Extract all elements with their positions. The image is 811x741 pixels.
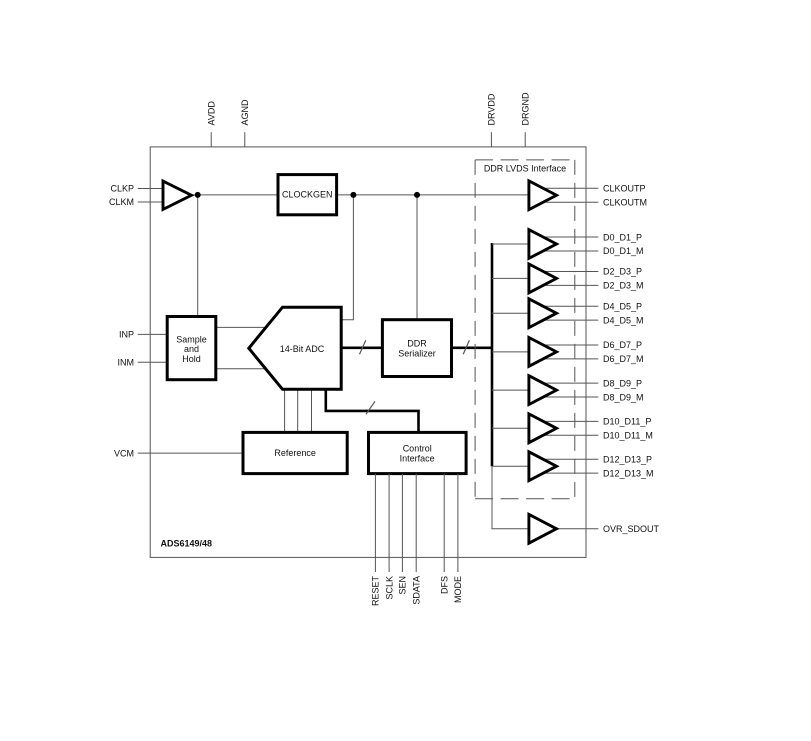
svg-text:DRGND: DRGND [520, 92, 530, 125]
svg-text:D6_D7_M: D6_D7_M [603, 354, 644, 364]
wire clock to serializer [416, 195, 418, 320]
svg-text:D4_D5_P: D4_D5_P [603, 302, 642, 312]
junction dot clock to serializer [414, 192, 420, 198]
wire bus to D8 buffer [492, 389, 529, 391]
wire D4_D5_P [541, 305, 598, 307]
svg-text:AVDD: AVDD [206, 101, 216, 126]
svg-text:D8_D9_M: D8_D9_M [603, 392, 644, 402]
control pin RESET [371, 474, 381, 606]
svg-text:DRVDD: DRVDD [487, 93, 497, 125]
wire D0_D1_M [541, 250, 598, 252]
svg-text:SCLK: SCLK [384, 576, 394, 600]
svg-text:INP: INP [119, 330, 134, 340]
bus ADC to DDR serializer [341, 346, 383, 349]
svg-text:D2_D3_M: D2_D3_M [603, 281, 644, 291]
svg-text:CLKOUTP: CLKOUTP [603, 184, 646, 194]
svg-text:D10_D11_M: D10_D11_M [603, 431, 653, 441]
LVDS buffer D4_D5 [529, 299, 557, 328]
svg-text:MODE: MODE [453, 576, 463, 603]
wire sample-hold to ADC lower [216, 368, 272, 370]
wire D10_D11_P [541, 420, 598, 422]
bus serializer to LVDS bus [452, 346, 493, 349]
wire OVR_SDOUT [541, 528, 598, 530]
svg-text:CLOCKGEN: CLOCKGEN [282, 190, 333, 200]
input pin VCM [114, 448, 243, 458]
svg-text:Serializer: Serializer [398, 348, 436, 358]
LVDS buffer OVR_SDOUT [529, 514, 557, 543]
LVDS buffer D12_D13 [529, 452, 557, 481]
wire D12_D13_P [541, 458, 598, 460]
svg-text:ADS6149/48: ADS6149/48 [161, 539, 213, 549]
clock input buffer [163, 181, 191, 209]
svg-text:D4_D5_M: D4_D5_M [603, 315, 644, 325]
wire clock to sample-hold [197, 195, 199, 316]
svg-text:CLKOUTM: CLKOUTM [603, 197, 647, 207]
LVDS data bus vertical [491, 243, 494, 466]
svg-text:AGND: AGND [240, 99, 250, 126]
LVDS buffer CLKOUT [529, 181, 557, 210]
control pin MODE [453, 474, 463, 603]
svg-text:D10_D11_P: D10_D11_P [603, 417, 651, 427]
wire D2_D3_P [541, 270, 598, 272]
op block CLOCKGEN [278, 175, 337, 215]
svg-text:and: and [184, 344, 199, 354]
wire CLKOUTM [541, 201, 598, 203]
LVDS buffer D2_D3 [529, 264, 557, 293]
svg-text:D2_D3_P: D2_D3_P [603, 267, 642, 277]
input pin CLKP [110, 184, 162, 194]
svg-text:CLKM: CLKM [109, 197, 134, 207]
bus width slash serializer-bus [463, 340, 469, 354]
main chip boundary box [150, 147, 586, 558]
wire bus to D6 buffer [492, 351, 529, 353]
power pin AVDD [206, 101, 216, 147]
input pin CLKM [109, 197, 162, 207]
DDR LVDS Interface dashed region [475, 160, 575, 499]
block Control Interface [369, 432, 467, 473]
svg-text:D0_D1_P: D0_D1_P [603, 232, 642, 242]
wire bus to D0 buffer [492, 243, 529, 245]
junction dot clock buffer output [195, 192, 201, 198]
svg-text:RESET: RESET [371, 576, 381, 607]
svg-text:Reference: Reference [274, 448, 316, 458]
svg-text:D0_D1_M: D0_D1_M [603, 246, 644, 256]
power pin AGND [240, 99, 250, 147]
svg-text:Interface: Interface [400, 453, 435, 463]
wire ADC to reference 2 [297, 389, 299, 432]
wire CLKOUTP [541, 187, 598, 189]
LVDS buffer D8_D9 [529, 376, 557, 405]
input pin INP [119, 330, 167, 340]
control pin DFS [439, 474, 449, 594]
svg-text:D12_D13_M: D12_D13_M [603, 468, 654, 478]
wire clock to ADC [341, 195, 353, 320]
svg-text:DDR: DDR [407, 339, 427, 349]
svg-text:D12_D13_P: D12_D13_P [603, 455, 652, 465]
block Reference [243, 432, 347, 473]
power pin DRVDD [487, 93, 497, 147]
svg-text:Control: Control [403, 444, 432, 454]
svg-text:Hold: Hold [182, 354, 201, 364]
wire ADC to reference 3 [311, 389, 313, 432]
input pin INM [118, 357, 168, 367]
wire clock main horizontal [191, 194, 529, 196]
LVDS buffer D10_D11 [529, 414, 557, 443]
wire D4_D5_M [541, 319, 598, 321]
bus width slash ADC-control [366, 401, 375, 414]
svg-text:DFS: DFS [439, 576, 449, 594]
wire D10_D11_M [541, 434, 598, 436]
wire D2_D3_M [541, 284, 598, 286]
svg-text:CLKP: CLKP [110, 184, 134, 194]
block 14-Bit ADC [249, 307, 341, 389]
bus ADC to control interface [326, 388, 419, 432]
wire ADC to reference 1 [284, 389, 286, 432]
svg-text:D8_D9_P: D8_D9_P [603, 378, 642, 388]
block Sample and Hold [167, 317, 216, 380]
svg-text:14-Bit ADC: 14-Bit ADC [280, 344, 325, 354]
control pin SDATA [411, 474, 421, 605]
wire D8_D9_P [541, 382, 598, 384]
svg-text:DDR LVDS Interface: DDR LVDS Interface [484, 164, 566, 174]
power pin DRGND [520, 92, 530, 147]
svg-text:OVR_SDOUT: OVR_SDOUT [603, 524, 660, 534]
wire sample-hold to ADC upper [216, 326, 272, 328]
svg-text:VCM: VCM [114, 448, 134, 458]
wire bus to D10 buffer [492, 427, 529, 429]
wire D12_D13_M [541, 472, 598, 474]
wire bus to D2 buffer [492, 277, 529, 279]
control pin SCLK [384, 474, 394, 600]
junction dot clock to ADC [350, 192, 356, 198]
wire bus to D12 buffer [492, 465, 529, 467]
wire D6_D7_M [541, 358, 598, 360]
bus width slash ADC-serializer [360, 340, 366, 354]
block DDR Serializer [382, 320, 451, 377]
svg-text:D6_D7_P: D6_D7_P [603, 340, 642, 350]
wire bus to D4 buffer [492, 312, 529, 314]
svg-text:Sample: Sample [176, 334, 207, 344]
svg-text:INM: INM [118, 357, 135, 367]
LVDS buffer D0_D1 [529, 230, 557, 259]
wire to OVR buffer [492, 466, 529, 529]
LVDS buffer D6_D7 [529, 338, 557, 367]
svg-text:SEN: SEN [398, 576, 408, 595]
wire D0_D1_P [541, 236, 598, 238]
svg-text:SDATA: SDATA [411, 576, 421, 605]
wire D6_D7_P [541, 344, 598, 346]
wire D8_D9_M [541, 396, 598, 398]
control pin SEN [398, 474, 408, 595]
